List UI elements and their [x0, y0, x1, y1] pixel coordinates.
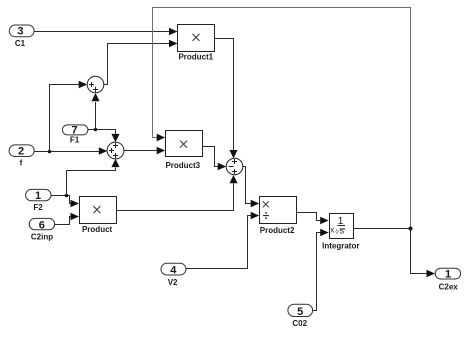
junction F1 branch: [94, 128, 98, 132]
block Product2: [260, 197, 297, 236]
inport 2 f: [9, 145, 34, 167]
svg-text:6: 6: [39, 219, 45, 231]
svg-text:5: 5: [297, 306, 303, 318]
svg-text:2: 2: [18, 145, 24, 157]
wire Product2 out to Integrator in1: [297, 213, 322, 221]
wire CO2 to Integrator in2: [313, 233, 322, 311]
svg-text:Product: Product: [82, 225, 113, 234]
inport 6 C2inp: [29, 218, 55, 241]
inport 5 CO2: [288, 304, 313, 328]
svg-text:0: 0: [336, 230, 339, 236]
block Product1: [178, 25, 215, 62]
wire F1 branch up to Sum1 bottom: [95, 102, 97, 130]
junction Integrator out: [409, 227, 413, 231]
svg-text:Product3: Product3: [165, 161, 200, 170]
svg-text:1: 1: [35, 190, 41, 202]
sum Sum1: [87, 76, 104, 93]
svg-text:3: 3: [17, 26, 23, 38]
svg-text:C02: C02: [292, 319, 307, 328]
block Integrator: [322, 214, 359, 251]
wire V2 to Product2 in2: [186, 216, 252, 269]
wire Product1 out to Sum3 top: [215, 39, 234, 151]
wire Product out to Sum3 bottom: [117, 184, 234, 211]
svg-text:1: 1: [445, 268, 451, 280]
svg-text:C2inp: C2inp: [31, 232, 53, 241]
svg-text:s: s: [340, 225, 345, 235]
svg-text:Product1: Product1: [178, 53, 213, 62]
svg-text:f: f: [20, 158, 23, 167]
inport 3 C1: [9, 25, 34, 48]
wire feedback from Integrator out to Product3 in1: [153, 8, 411, 229]
outport 1 C2ex: [435, 268, 460, 291]
svg-text:Integrator: Integrator: [322, 241, 359, 250]
inport 4 V2: [161, 263, 186, 287]
wire Sum2 out to Product3 in2: [124, 150, 158, 152]
wire F2 branch to Sum2 bottom: [67, 168, 116, 196]
junction f branch: [48, 150, 52, 154]
block Product: [80, 197, 117, 234]
sum Sum2: [107, 142, 124, 159]
wire Integrator out to C2ex: [354, 229, 428, 274]
svg-text:4: 4: [170, 264, 177, 276]
wire Sum1 out to Product1 in2: [104, 44, 170, 85]
svg-text:Product2: Product2: [260, 226, 295, 235]
svg-text:C1: C1: [15, 39, 26, 48]
wire F1 to Sum2 top: [88, 130, 116, 135]
junction F2 branch: [65, 194, 69, 198]
wire f to Sum2 left: [34, 151, 100, 153]
inport 7 F1: [62, 124, 88, 144]
wire C2inp to Product in2: [55, 217, 72, 225]
wire Product3 out to Sum3 left: [203, 147, 220, 167]
sum Sum3: [226, 158, 243, 175]
svg-text:F2: F2: [33, 203, 43, 212]
wire Sum3 out to Product2 in1: [243, 167, 252, 204]
inport 1 F2: [26, 189, 51, 212]
svg-text:F1: F1: [70, 136, 80, 145]
block Product3: [165, 131, 202, 171]
wire F2 to Product in1: [51, 196, 72, 204]
wire f branch up to Sum1 left: [50, 85, 80, 152]
svg-text:V2: V2: [168, 278, 178, 287]
svg-text:7: 7: [72, 124, 78, 136]
svg-text:x: x: [330, 226, 334, 235]
wire C1 to Product1 in1: [34, 31, 170, 33]
svg-text:C2ex: C2ex: [439, 282, 459, 291]
